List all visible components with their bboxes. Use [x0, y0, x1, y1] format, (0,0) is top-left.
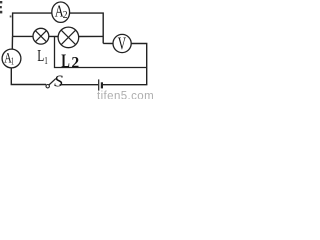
ammeter A1: [2, 49, 21, 68]
ammeter A2: [52, 1, 70, 22]
svg-text:L: L: [61, 51, 70, 72]
label L1: [37, 46, 48, 67]
wire: node N1 down to ammeter A1: [11, 36, 13, 49]
switch S: [46, 79, 56, 88]
wire: L2 to right rail junction: [79, 35, 104, 37]
voltmeter V: [113, 34, 131, 54]
wire: junction to voltmeter: [103, 42, 113, 44]
svg-text:2: 2: [71, 54, 79, 71]
wire: node N1 to lamp L1: [13, 35, 33, 37]
lamp L2: [58, 27, 79, 48]
wire: voltmeter to top-right corner of right rail: [131, 44, 147, 85]
wire: A2 to top-right corner down to voltmeter branch: [70, 13, 104, 43]
wire: node N3 drop and inner rail to right rail: [55, 37, 147, 68]
wire: L1 to L2 through node N3: [49, 35, 59, 37]
svg-text:1: 1: [44, 55, 48, 67]
lamp L1: [33, 28, 49, 44]
svg-text:V: V: [118, 34, 126, 54]
wire: ammeter A1 down to bottom-left corner and to switch: [11, 68, 46, 85]
label L2: [61, 51, 79, 72]
battery cell: [99, 79, 102, 90]
svg-text:L: L: [37, 46, 44, 65]
wire: battery to bottom-right corner: [103, 84, 147, 86]
svg-text:S: S: [54, 71, 63, 90]
wire: switch to battery: [60, 84, 99, 86]
svg-text:tifen5.com: tifen5.com: [97, 90, 154, 99]
wire: left rail top and top rail to A2: [13, 13, 52, 36]
svg-text:2: 2: [63, 9, 68, 21]
svg-text:1: 1: [11, 56, 14, 67]
